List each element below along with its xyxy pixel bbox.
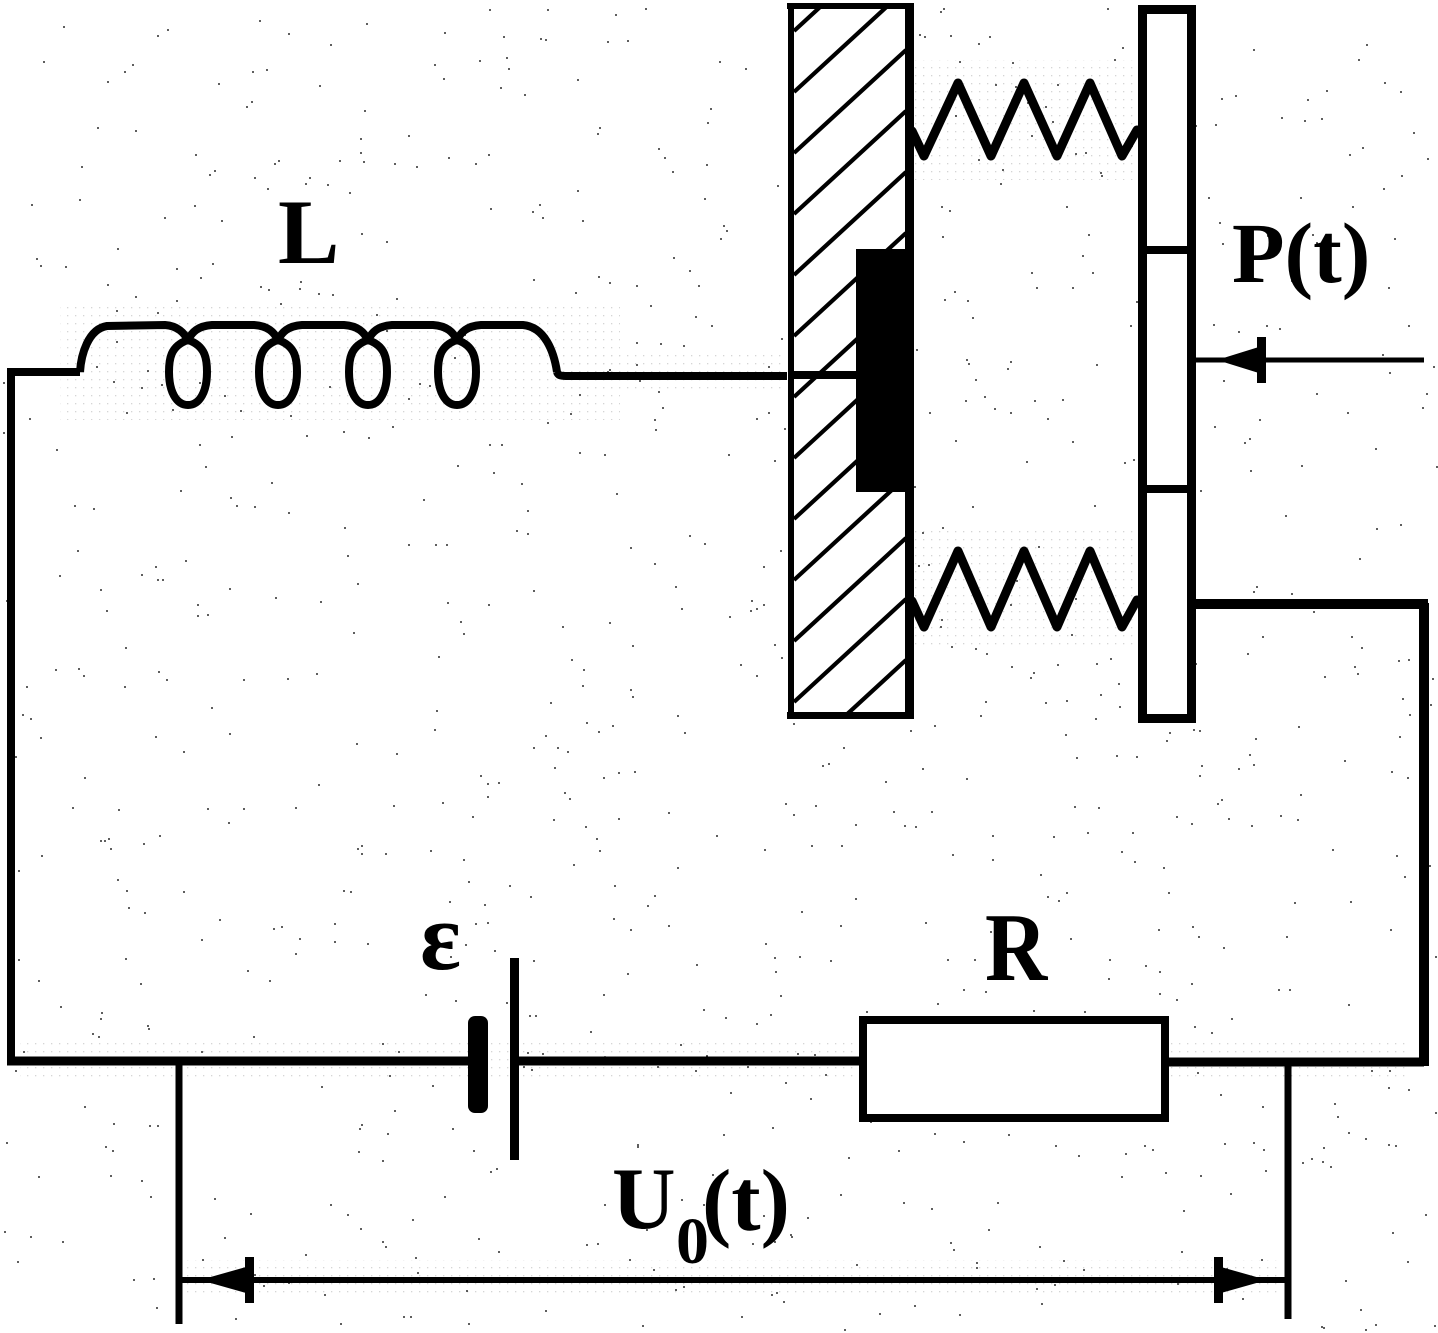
svg-text:P(t): P(t) xyxy=(1232,205,1370,301)
svg-text:(t): (t) xyxy=(702,1153,790,1250)
svg-text:R: R xyxy=(985,893,1049,1001)
svg-text:U: U xyxy=(612,1151,676,1248)
svg-text:ε: ε xyxy=(420,883,461,990)
svg-text:L: L xyxy=(278,181,339,283)
